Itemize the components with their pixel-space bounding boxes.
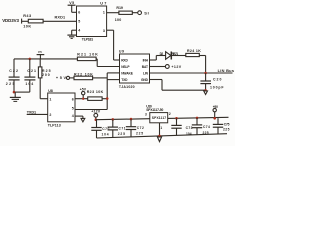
capacitor C75 225 <box>213 118 230 134</box>
node junction <box>204 89 206 91</box>
svg-text:C20: C20 <box>213 77 222 81</box>
node junction <box>82 98 84 100</box>
svg-text:GND: GND <box>141 78 149 82</box>
svg-text:104: 104 <box>25 82 33 86</box>
svg-text:C71: C71 <box>119 127 126 131</box>
svg-text:TJA1020: TJA1020 <box>119 85 135 89</box>
svg-text:SI: SI <box>144 11 148 16</box>
svg-text:R24 1K: R24 1K <box>187 49 201 53</box>
wire U8 pin5 <box>75 109 107 111</box>
svg-text:+5V: +5V <box>80 87 87 91</box>
resistor R43 10K <box>23 14 43 29</box>
ground arrow <box>81 118 85 122</box>
wire <box>93 77 108 79</box>
wire U8 pin4 <box>75 116 83 118</box>
node +12V terminal bottom <box>91 109 101 121</box>
svg-text:225: 225 <box>118 132 125 136</box>
power V5 bar rail <box>37 50 45 59</box>
svg-text:NSLP: NSLP <box>121 65 130 69</box>
svg-text:V5: V5 <box>69 1 74 5</box>
ground arrow <box>157 137 161 142</box>
svg-text:2: 2 <box>49 113 51 117</box>
wire <box>72 11 77 13</box>
wire <box>14 91 30 93</box>
regulator U10 SPX1117 <box>146 104 168 122</box>
capacitor C73 104 <box>171 117 192 136</box>
node junction <box>106 97 109 100</box>
svg-text:C72: C72 <box>137 126 144 130</box>
svg-text:RXD: RXD <box>121 58 128 62</box>
svg-text:100pF: 100pF <box>210 86 224 90</box>
svg-text:TLP181: TLP181 <box>82 38 93 42</box>
capacitor C71 225 <box>108 118 126 137</box>
resistor R24 1K <box>186 49 201 57</box>
svg-text:C74: C74 <box>203 125 210 129</box>
op-amp U9 TJA1020 LIN transceiver <box>119 50 150 89</box>
wire 5V out rail <box>168 117 229 118</box>
svg-text:D2: D2 <box>160 52 164 56</box>
svg-text:4: 4 <box>78 28 80 32</box>
ground arrow <box>204 91 208 95</box>
svg-text:C22: C22 <box>9 69 18 73</box>
svg-text:225: 225 <box>223 128 230 132</box>
resistor R21 10K <box>77 52 98 60</box>
svg-text:INH: INH <box>143 58 149 62</box>
wire U7 pin3 to U9 RXD <box>107 30 120 60</box>
wire 5V rail <box>14 58 77 60</box>
node terminal circle <box>138 11 142 15</box>
node +5V terminal <box>80 87 87 98</box>
wire GND pin <box>150 80 206 91</box>
svg-text:200: 200 <box>42 73 50 77</box>
svg-text:V5: V5 <box>38 50 42 54</box>
wire ground rail <box>97 134 228 138</box>
svg-text:104: 104 <box>186 132 192 136</box>
capacitor C72 225 <box>126 118 144 137</box>
svg-text:U9: U9 <box>119 50 124 54</box>
wire vertical node <box>106 73 108 110</box>
diode D2 RB71 <box>160 52 179 60</box>
svg-text:TXD: TXD <box>121 78 128 82</box>
svg-text:R19: R19 <box>116 6 122 10</box>
wire R21 to NSLP <box>96 59 119 67</box>
svg-text:R43: R43 <box>23 14 31 18</box>
wire NWAKE stub <box>107 72 119 74</box>
wire <box>102 98 107 100</box>
op-amp U8 TLP113 optocoupler <box>48 89 75 128</box>
svg-text:225: 225 <box>203 131 209 135</box>
svg-text:6: 6 <box>72 97 74 101</box>
svg-text:10K: 10K <box>23 25 31 29</box>
wire TXD stub <box>107 79 119 81</box>
capacitor C22 225 <box>6 59 20 92</box>
node junction <box>29 58 32 61</box>
svg-text:U7: U7 <box>100 1 106 5</box>
wire <box>70 77 74 79</box>
svg-text:NWAKE: NWAKE <box>121 71 134 75</box>
svg-text:225: 225 <box>136 132 143 136</box>
svg-text:SPX1117: SPX1117 <box>152 116 166 120</box>
svg-text:BAT: BAT <box>142 65 148 69</box>
svg-text:225: 225 <box>6 82 15 86</box>
node junction <box>13 91 16 94</box>
wire node TXD1 <box>27 111 48 115</box>
svg-text:TLP113: TLP113 <box>48 124 61 128</box>
wire 12V rail <box>96 119 150 120</box>
svg-text:R23 10K: R23 10K <box>87 90 104 94</box>
svg-text:5: 5 <box>78 19 80 23</box>
capacitor C74 225 <box>192 117 210 135</box>
ground <box>67 35 76 38</box>
resistor R19 100 <box>115 6 133 22</box>
resistor R22 10K <box>74 72 93 79</box>
op-amp U7 TLP181 optocoupler <box>77 1 107 41</box>
wire BAT to +12V <box>150 66 166 68</box>
svg-text:6: 6 <box>78 10 80 14</box>
svg-text:+5V: +5V <box>56 76 67 80</box>
node junction <box>204 72 207 75</box>
capacitor C20 100pF <box>200 73 224 90</box>
svg-text:VDD3V3: VDD3V3 <box>2 18 19 23</box>
wire LIN bus <box>150 68 234 73</box>
svg-text:104: 104 <box>102 132 109 136</box>
power V5 bar top <box>68 1 76 12</box>
capacitor C70 104 <box>91 120 109 138</box>
wire <box>171 55 186 57</box>
wire U8 pin6 <box>75 98 88 100</box>
svg-text:SPX1117-50: SPX1117-50 <box>146 108 163 112</box>
node VDD3V3 <box>2 18 21 23</box>
wire <box>132 12 137 14</box>
svg-text:C21: C21 <box>27 69 36 73</box>
svg-text:LIN Bus: LIN Bus <box>218 68 234 73</box>
resistor R23 10K <box>87 90 104 101</box>
wire <box>72 30 77 35</box>
svg-text:100: 100 <box>115 18 121 22</box>
svg-text:LIN: LIN <box>143 71 149 75</box>
capacitor C21 104 <box>24 59 36 92</box>
svg-text:R21 10K: R21 10K <box>77 52 98 56</box>
svg-text:RXD1: RXD1 <box>55 15 66 19</box>
svg-text:C75: C75 <box>224 122 230 126</box>
wire R24 to LIN <box>199 56 205 74</box>
svg-text:U8: U8 <box>48 89 52 93</box>
node +5V terminal right <box>213 105 219 120</box>
svg-text:5: 5 <box>72 106 74 110</box>
node +5V terminal <box>56 76 70 80</box>
svg-text:4: 4 <box>72 114 74 118</box>
wire <box>22 20 29 22</box>
resistor R25 200 vertical <box>38 59 50 78</box>
svg-text:3: 3 <box>103 29 105 33</box>
wire regulator gnd <box>159 123 161 136</box>
ground <box>10 92 21 101</box>
node +12V terminal <box>165 65 181 69</box>
wire R25 to U8 pin1 <box>40 78 48 99</box>
wire <box>107 12 119 14</box>
svg-text:1: 1 <box>103 11 105 15</box>
svg-text:+12V: +12V <box>171 65 181 69</box>
svg-text:C73: C73 <box>186 126 193 130</box>
svg-text:+12V: +12V <box>91 109 101 113</box>
svg-text:1: 1 <box>49 97 51 101</box>
svg-text:R22 10K: R22 10K <box>74 72 93 76</box>
wire node RXD1 <box>43 15 76 21</box>
wire INH to diode <box>150 56 166 61</box>
node junction <box>158 135 161 138</box>
